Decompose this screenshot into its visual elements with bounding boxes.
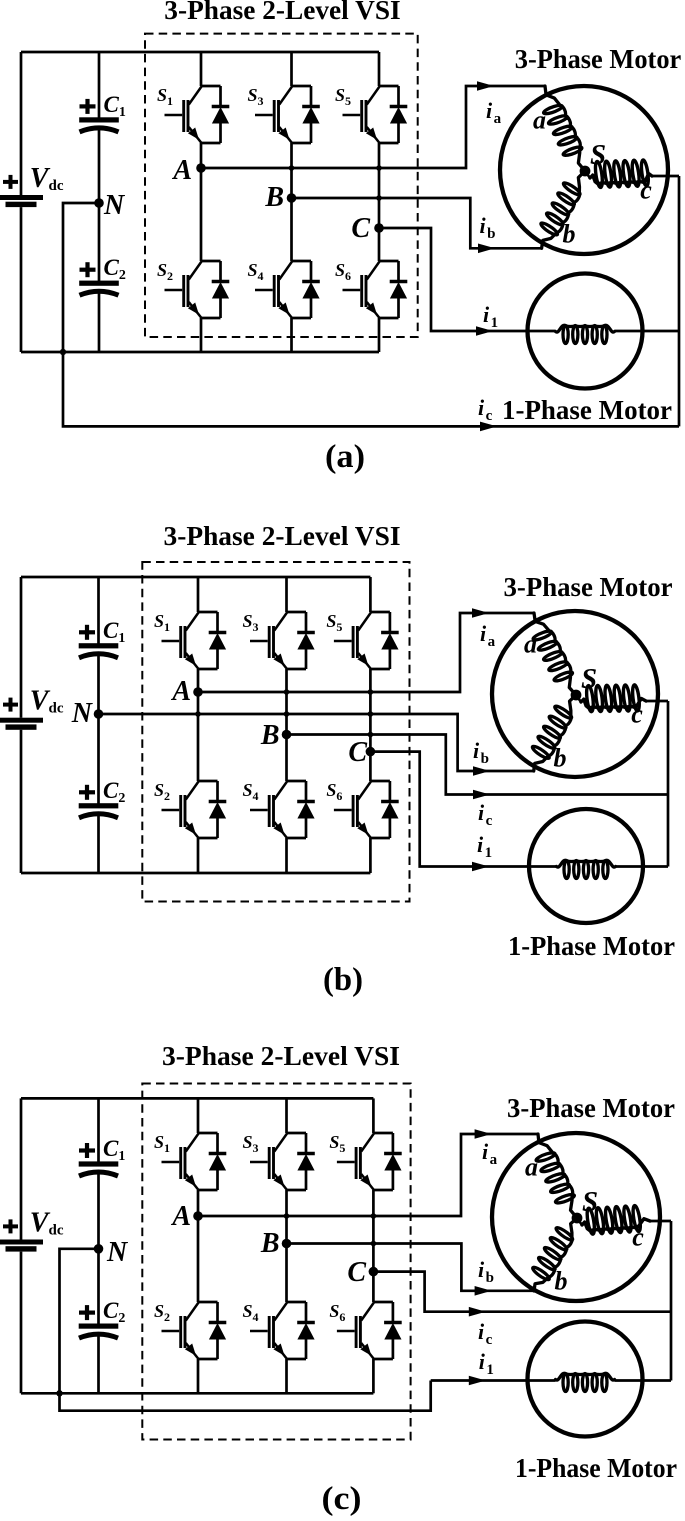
svg-text:3-Phase 2-Level VSI: 3-Phase 2-Level VSI	[164, 521, 401, 551]
svg-text:a: a	[524, 630, 537, 659]
svg-text:S: S	[590, 139, 606, 171]
svg-text:3-Phase Motor: 3-Phase Motor	[504, 572, 673, 602]
svg-text:C: C	[348, 737, 367, 768]
svg-text:3-Phase Motor: 3-Phase Motor	[507, 1093, 675, 1123]
svg-text:C: C	[351, 213, 370, 244]
svg-text:(b): (b)	[323, 962, 363, 998]
svg-text:a: a	[533, 106, 546, 135]
svg-text:(a): (a)	[325, 439, 365, 475]
svg-text:a: a	[525, 1153, 538, 1182]
svg-text:S: S	[581, 663, 597, 695]
svg-text:b: b	[563, 220, 576, 249]
svg-text:B: B	[260, 1228, 280, 1259]
svg-text:B: B	[264, 182, 284, 213]
svg-text:A: A	[170, 676, 191, 707]
svg-text:S: S	[582, 1186, 598, 1218]
svg-text:3-Phase 2-Level VSI: 3-Phase 2-Level VSI	[164, 0, 400, 25]
svg-text:A: A	[171, 155, 192, 186]
svg-text:N: N	[106, 1237, 129, 1268]
svg-text:c: c	[640, 176, 652, 205]
svg-text:C: C	[347, 1257, 366, 1288]
svg-text:3-Phase 2-Level VSI: 3-Phase 2-Level VSI	[162, 1041, 400, 1071]
svg-text:1-Phase Motor: 1-Phase Motor	[515, 1453, 677, 1483]
svg-text:N: N	[71, 698, 94, 729]
svg-text:N: N	[103, 190, 126, 221]
svg-text:(c): (c)	[322, 1481, 362, 1517]
svg-text:1-Phase Motor: 1-Phase Motor	[508, 931, 675, 961]
svg-text:b: b	[554, 744, 567, 773]
svg-text:c: c	[631, 700, 643, 729]
svg-text:1-Phase Motor: 1-Phase Motor	[502, 395, 672, 425]
svg-text:c: c	[632, 1223, 644, 1252]
svg-text:b: b	[555, 1267, 568, 1296]
svg-text:3-Phase Motor: 3-Phase Motor	[515, 44, 682, 74]
svg-text:B: B	[260, 720, 280, 751]
svg-text:A: A	[170, 1201, 191, 1232]
